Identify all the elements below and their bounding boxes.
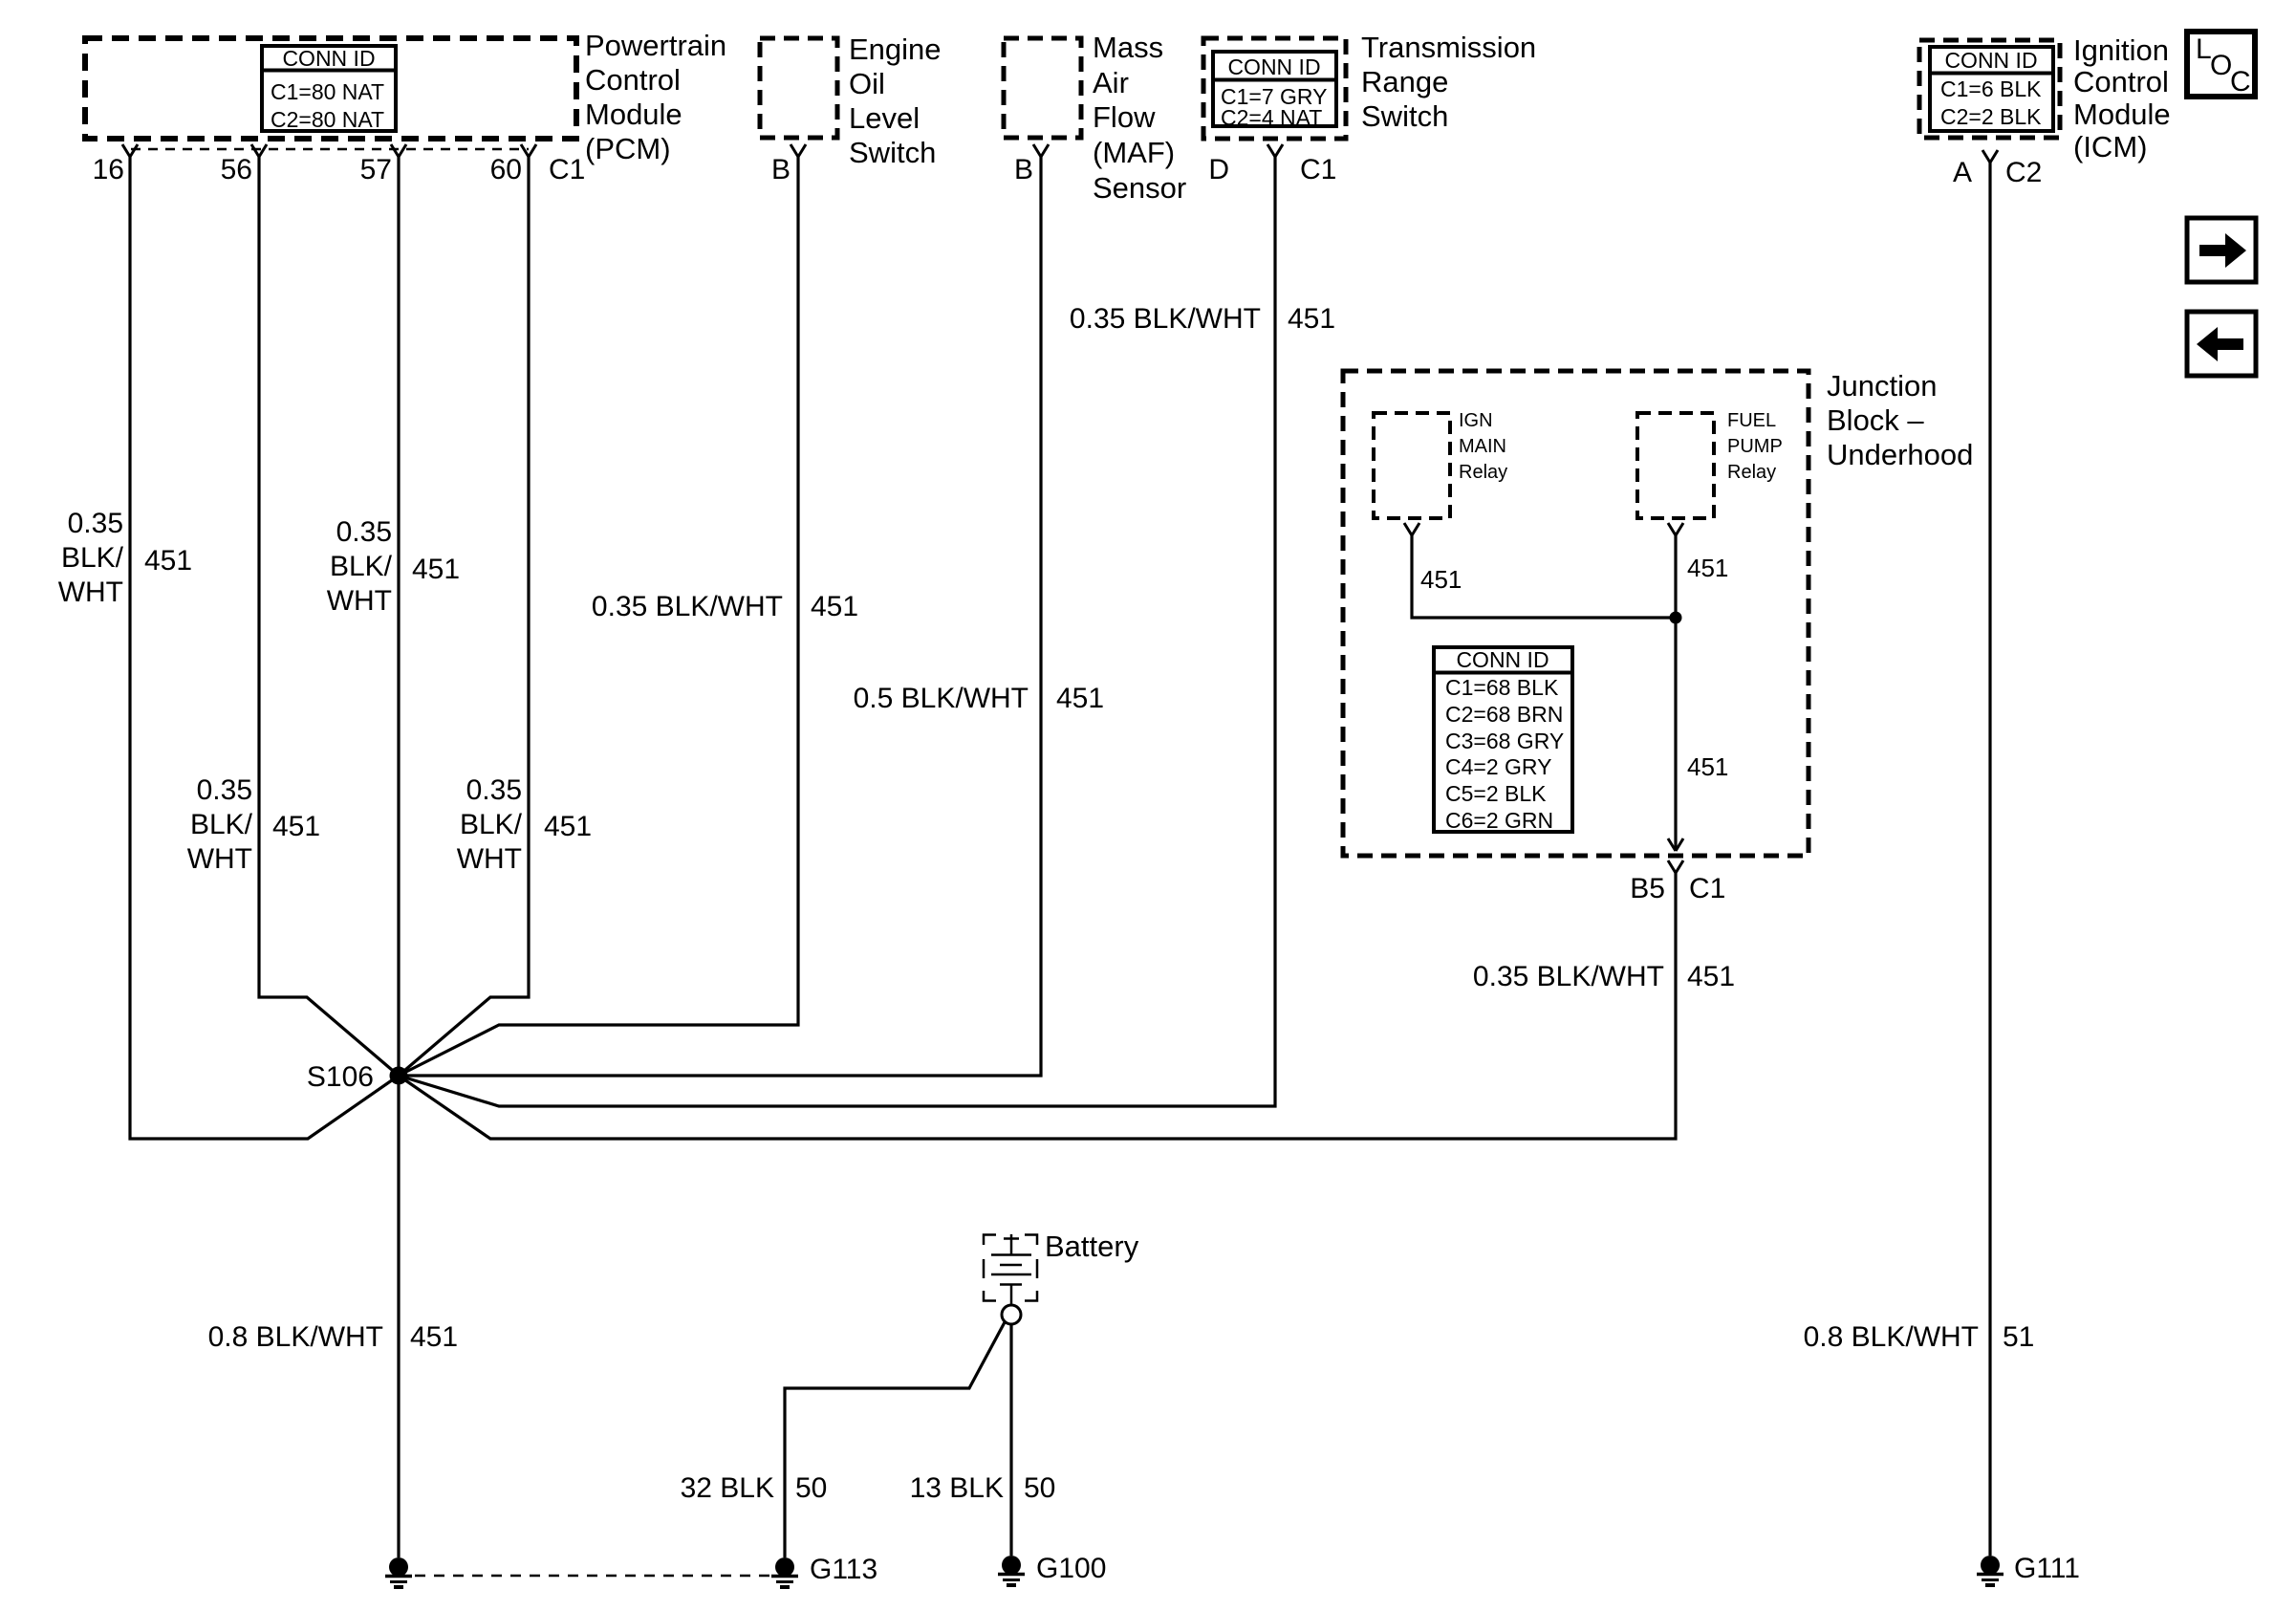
pin A / connector C2 of ICM <box>1982 150 1998 163</box>
ground G111 <box>1977 1553 2080 1585</box>
Transmission Range Switch label <box>1361 31 1536 133</box>
wire label 0.35 BLK/WHT (pin 56) <box>187 774 253 875</box>
svg-text:451: 451 <box>410 1321 458 1353</box>
svg-text:Flow: Flow <box>1093 100 1156 134</box>
svg-text:Oil: Oil <box>849 67 885 100</box>
svg-text:(PCM): (PCM) <box>585 132 671 165</box>
svg-text:C2=2 BLK: C2=2 BLK <box>1940 104 2042 129</box>
svg-text:0.35: 0.35 <box>197 774 252 806</box>
svg-text:451: 451 <box>1056 683 1104 714</box>
svg-text:C2=80 NAT: C2=80 NAT <box>271 107 384 132</box>
svg-text:WHT: WHT <box>58 577 123 608</box>
Junction CONN ID table <box>1434 647 1572 833</box>
svg-text:A: A <box>1953 157 1972 188</box>
pin 56 of PCM <box>251 144 267 157</box>
svg-text:451: 451 <box>144 545 192 577</box>
svg-text:56: 56 <box>221 154 252 185</box>
pin of FUEL PUMP Relay <box>1668 523 1683 535</box>
wire label 0.35 BLK/WHT (pin 60) <box>457 774 523 875</box>
svg-text:0.8 BLK/WHT: 0.8 BLK/WHT <box>208 1321 383 1353</box>
svg-text:B5: B5 <box>1630 873 1665 904</box>
svg-text:Ignition: Ignition <box>2073 33 2169 67</box>
PCM module box U1 <box>85 38 576 139</box>
wire from MAF sensor pin B to S106 <box>399 157 1041 1076</box>
svg-text:BLK/: BLK/ <box>460 809 523 840</box>
svg-text:32 BLK: 32 BLK <box>681 1472 774 1504</box>
svg-text:Control: Control <box>2073 65 2169 98</box>
svg-text:C2=4 NAT: C2=4 NAT <box>1221 105 1322 130</box>
ICM label text <box>2073 33 2171 163</box>
svg-text:Air: Air <box>1093 66 1129 99</box>
svg-text:WHT: WHT <box>327 585 392 617</box>
svg-text:13 BLK: 13 BLK <box>910 1472 1004 1504</box>
svg-text:Relay: Relay <box>1727 462 1776 483</box>
svg-text:C1: C1 <box>1689 873 1725 904</box>
wire from PCM pin 60 to S106 <box>399 157 529 1076</box>
svg-text:451: 451 <box>412 554 460 585</box>
svg-text:57: 57 <box>360 154 392 185</box>
svg-text:MAIN: MAIN <box>1459 436 1506 457</box>
ICM CONN ID table <box>1930 47 2053 131</box>
pin B of Engine Oil Level Switch <box>791 144 806 157</box>
svg-text:Battery: Battery <box>1045 1230 1139 1263</box>
svg-text:C4=2 GRY: C4=2 GRY <box>1445 754 1551 779</box>
wire from battery to G113 <box>785 1322 1005 1557</box>
pin B of MAF sensor <box>1033 144 1049 157</box>
MAF sensor box <box>1004 38 1081 138</box>
svg-text:Control: Control <box>585 63 681 97</box>
svg-text:451: 451 <box>1288 303 1335 335</box>
svg-text:D: D <box>1208 154 1229 185</box>
svg-text:50: 50 <box>795 1472 827 1504</box>
svg-text:O: O <box>2210 50 2232 81</box>
wire label 0.35 BLK/WHT (pin 16) <box>58 508 124 608</box>
svg-text:C2: C2 <box>2005 157 2042 188</box>
svg-text:C1=6 BLK: C1=6 BLK <box>1940 76 2042 101</box>
svg-text:B: B <box>1014 154 1033 185</box>
svg-text:0.35 BLK/WHT: 0.35 BLK/WHT <box>592 591 783 622</box>
svg-text:Sensor: Sensor <box>1093 171 1186 205</box>
svg-text:BLK/: BLK/ <box>61 542 124 574</box>
svg-text:451: 451 <box>1687 752 1728 781</box>
Transmission Range Switch box <box>1203 38 1346 139</box>
pin D / connector C1 of Transmission Range Switch <box>1267 144 1283 157</box>
svg-text:451: 451 <box>544 811 592 842</box>
svg-text:451: 451 <box>1687 961 1735 992</box>
svg-text:C1=68 BLK: C1=68 BLK <box>1445 675 1559 700</box>
ground at S106 drain <box>385 1557 412 1587</box>
FUEL PUMP Relay box <box>1637 413 1714 518</box>
Engine Oil Level Switch label <box>849 33 942 169</box>
wire from PCM pin 56 to S106 <box>259 157 399 1076</box>
svg-text:0.35: 0.35 <box>466 774 522 806</box>
svg-text:C3=68 GRY: C3=68 GRY <box>1445 729 1564 753</box>
svg-text:CONN ID: CONN ID <box>1456 647 1549 672</box>
wire from junction block B5 to S106 <box>399 873 1676 1139</box>
dashed bond between S106 ground and G113 <box>415 1575 770 1578</box>
svg-text:Module: Module <box>2073 98 2171 131</box>
svg-text:CONN ID: CONN ID <box>1227 54 1320 79</box>
wire from ICM pin A to G111 <box>1988 163 1991 1556</box>
Junction Block Underhood box <box>1343 371 1809 856</box>
svg-text:Mass: Mass <box>1093 31 1163 64</box>
svg-text:60: 60 <box>490 154 522 185</box>
svg-text:451: 451 <box>272 811 320 842</box>
svg-text:Junction: Junction <box>1827 369 1937 403</box>
svg-text:C1=80 NAT: C1=80 NAT <box>271 79 384 104</box>
Battery terminal connector circle <box>1002 1305 1021 1324</box>
svg-text:50: 50 <box>1024 1472 1055 1504</box>
pin 60 of PCM <box>521 144 536 157</box>
wire from Engine Oil Level Switch pin B to S106 <box>399 157 798 1076</box>
svg-text:0.8 BLK/WHT: 0.8 BLK/WHT <box>1804 1321 1979 1353</box>
svg-text:51: 51 <box>2003 1321 2034 1353</box>
PCM label text <box>585 29 726 165</box>
svg-text:Block –: Block – <box>1827 403 1924 437</box>
svg-text:WHT: WHT <box>457 843 522 875</box>
svg-text:0.35 BLK/WHT: 0.35 BLK/WHT <box>1473 961 1664 992</box>
wire from battery to G100 <box>1009 1324 1012 1556</box>
junction node dot <box>1670 612 1682 624</box>
arrowhead leaving junction block <box>1668 838 1683 851</box>
svg-text:0.35: 0.35 <box>336 516 392 548</box>
splice S106 <box>390 1067 408 1085</box>
left arrow reference box <box>2187 312 2256 376</box>
svg-text:IGN: IGN <box>1459 410 1493 431</box>
svg-text:B: B <box>771 154 791 185</box>
svg-text:C2=68 BRN: C2=68 BRN <box>1445 702 1563 727</box>
svg-text:Switch: Switch <box>1361 99 1448 133</box>
svg-text:Switch: Switch <box>849 136 936 169</box>
PCM CONN ID table <box>262 46 396 132</box>
Battery symbol <box>991 1234 1031 1305</box>
svg-text:G100: G100 <box>1036 1553 1106 1584</box>
Junction Block label <box>1827 369 1973 471</box>
svg-text:Relay: Relay <box>1459 462 1507 483</box>
ground G113 <box>771 1554 877 1587</box>
Transmission Range Switch CONN ID table <box>1213 52 1336 130</box>
svg-text:C1: C1 <box>1300 154 1336 185</box>
ground G100 <box>998 1553 1106 1585</box>
svg-text:BLK/: BLK/ <box>190 809 253 840</box>
svg-text:0.5 BLK/WHT: 0.5 BLK/WHT <box>854 683 1029 714</box>
svg-text:G113: G113 <box>810 1554 877 1585</box>
pin of IGN MAIN Relay <box>1404 523 1419 535</box>
svg-text:BLK/: BLK/ <box>330 551 393 582</box>
svg-text:451: 451 <box>811 591 858 622</box>
wire from PCM pin 57 through S106 to ground <box>397 157 400 1557</box>
PCM connector dashed pin line <box>131 148 529 151</box>
svg-text:CONN ID: CONN ID <box>1944 48 2037 73</box>
wire label 0.35 BLK/WHT (pin 57) <box>327 516 393 617</box>
svg-text:Level: Level <box>849 101 920 135</box>
right arrow reference box <box>2187 218 2256 282</box>
svg-text:Underhood: Underhood <box>1827 438 1973 471</box>
svg-text:FUEL: FUEL <box>1727 410 1776 431</box>
svg-text:CONN ID: CONN ID <box>282 46 375 71</box>
svg-text:Engine: Engine <box>849 33 942 66</box>
svg-text:451: 451 <box>1687 554 1728 582</box>
svg-text:(ICM): (ICM) <box>2073 130 2147 163</box>
svg-text:16: 16 <box>93 154 124 185</box>
IGN MAIN Relay box <box>1374 413 1450 518</box>
Battery dashed enclosure <box>984 1235 1037 1301</box>
svg-text:0.35: 0.35 <box>68 508 123 539</box>
Engine Oil Level Switch box <box>760 38 837 138</box>
svg-text:(MAF): (MAF) <box>1093 136 1175 169</box>
svg-text:Module: Module <box>585 98 682 131</box>
wire from Transmission Range Switch pin D to S106 <box>399 157 1275 1106</box>
ICM module box <box>1919 40 2060 138</box>
pin 16 of PCM <box>122 144 138 157</box>
LOC reference box <box>2187 32 2255 98</box>
wire from FUEL PUMP relay down <box>1674 535 1677 850</box>
svg-text:Transmission: Transmission <box>1361 31 1536 64</box>
svg-text:451: 451 <box>1420 565 1462 594</box>
svg-text:C5=2 BLK: C5=2 BLK <box>1445 781 1547 806</box>
svg-text:0.35 BLK/WHT: 0.35 BLK/WHT <box>1070 303 1261 335</box>
pin B5 / connector C1 below junction block <box>1668 860 1683 873</box>
svg-text:G111: G111 <box>2014 1553 2080 1584</box>
IGN MAIN Relay label <box>1459 410 1507 483</box>
svg-text:Powertrain: Powertrain <box>585 29 726 62</box>
svg-text:Range: Range <box>1361 65 1448 98</box>
svg-text:C6=2 GRN: C6=2 GRN <box>1445 808 1553 833</box>
wire from IGN MAIN relay to junction node <box>1412 535 1676 618</box>
svg-text:C: C <box>2230 66 2251 98</box>
svg-text:WHT: WHT <box>187 843 252 875</box>
svg-text:PUMP: PUMP <box>1727 436 1783 457</box>
svg-text:C1: C1 <box>549 154 585 185</box>
FUEL PUMP Relay label <box>1727 410 1783 483</box>
pin 57 of PCM <box>391 144 406 157</box>
MAF sensor label <box>1093 31 1186 205</box>
wire from PCM pin 16 to S106 <box>130 157 399 1139</box>
svg-text:S106: S106 <box>307 1061 374 1093</box>
